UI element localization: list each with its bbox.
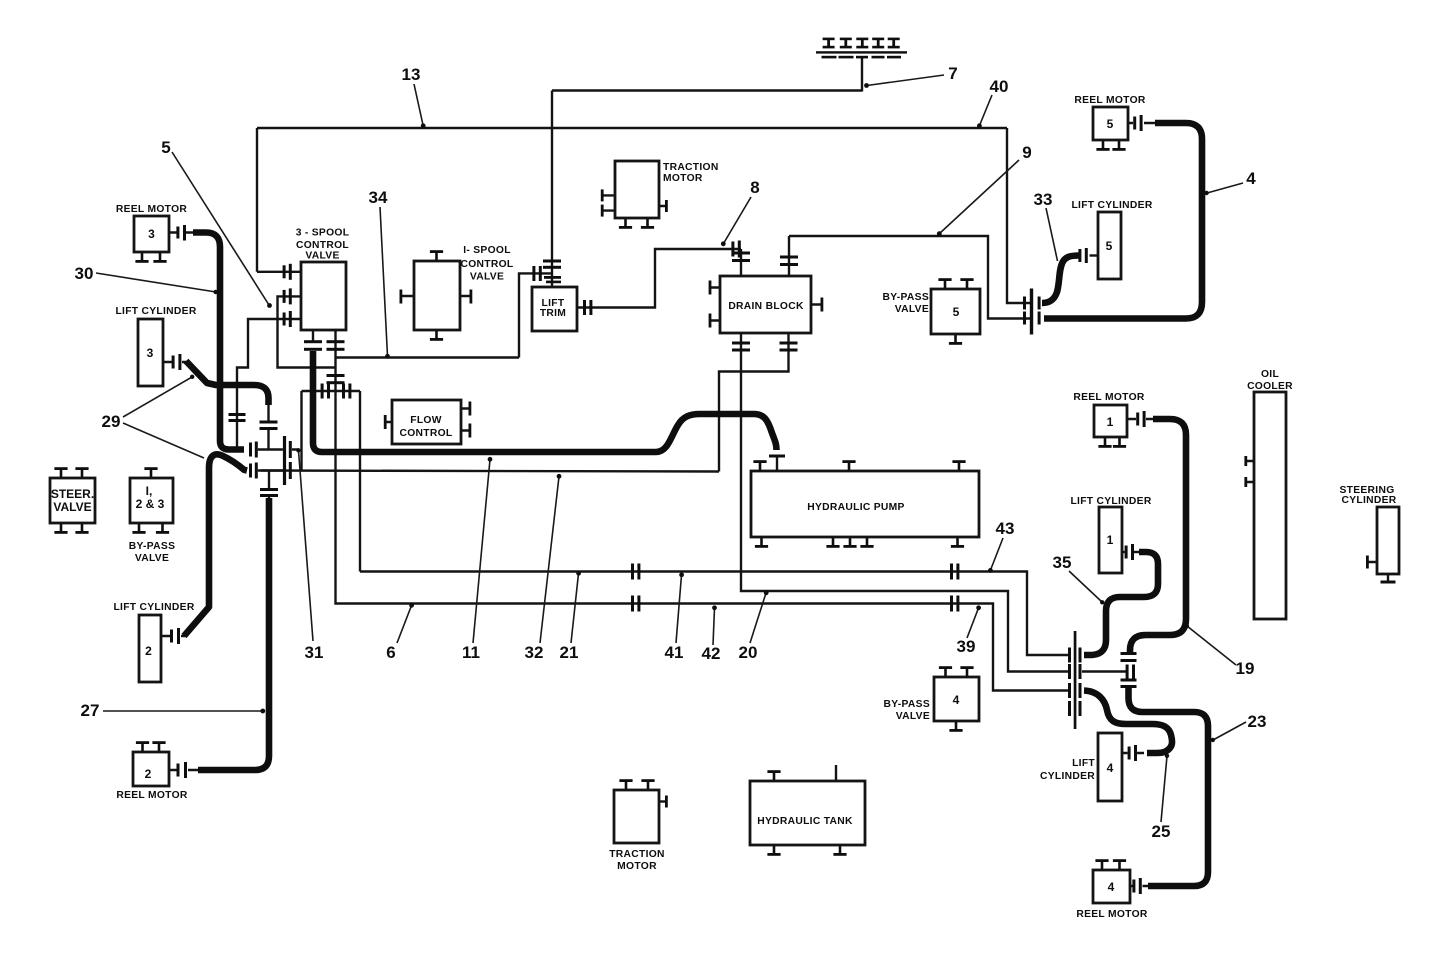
svg-text:STEER.: STEER. bbox=[51, 487, 94, 501]
svg-text:11: 11 bbox=[462, 643, 480, 662]
svg-text:REEL MOTOR: REEL MOTOR bbox=[116, 204, 188, 215]
svg-text:REEL MOTOR: REEL MOTOR bbox=[1076, 909, 1148, 920]
svg-text:4: 4 bbox=[1246, 169, 1256, 188]
svg-text:LIFT CYLINDER: LIFT CYLINDER bbox=[1071, 200, 1152, 211]
svg-text:8: 8 bbox=[750, 178, 759, 197]
svg-text:39: 39 bbox=[957, 637, 976, 656]
svg-text:BY-PASS: BY-PASS bbox=[129, 541, 176, 552]
svg-text:5: 5 bbox=[953, 305, 960, 319]
svg-text:REEL MOTOR: REEL MOTOR bbox=[1074, 95, 1146, 106]
svg-text:TRIM: TRIM bbox=[540, 308, 566, 319]
svg-text:3: 3 bbox=[148, 227, 155, 241]
svg-text:1: 1 bbox=[1107, 533, 1114, 547]
svg-text:VALVE: VALVE bbox=[305, 251, 339, 262]
svg-text:2: 2 bbox=[145, 644, 152, 658]
svg-text:35: 35 bbox=[1053, 553, 1072, 572]
svg-text:LIFT CYLINDER: LIFT CYLINDER bbox=[115, 306, 196, 317]
svg-text:CYLINDER: CYLINDER bbox=[1341, 495, 1396, 506]
svg-text:27: 27 bbox=[81, 701, 100, 720]
svg-text:32: 32 bbox=[525, 643, 544, 662]
svg-text:19: 19 bbox=[1236, 659, 1255, 678]
svg-text:42: 42 bbox=[702, 644, 721, 663]
svg-text:2 & 3: 2 & 3 bbox=[136, 497, 165, 511]
svg-text:43: 43 bbox=[996, 519, 1015, 538]
svg-text:6: 6 bbox=[386, 643, 395, 662]
svg-text:5: 5 bbox=[161, 138, 170, 157]
svg-text:7: 7 bbox=[948, 64, 957, 83]
svg-text:5: 5 bbox=[1107, 117, 1114, 131]
svg-text:40: 40 bbox=[990, 77, 1009, 96]
svg-text:3 - SPOOL: 3 - SPOOL bbox=[296, 228, 350, 239]
svg-text:HYDRAULIC TANK: HYDRAULIC TANK bbox=[757, 816, 853, 827]
svg-text:TRACTION: TRACTION bbox=[663, 162, 719, 173]
svg-text:BY-PASS: BY-PASS bbox=[883, 699, 930, 710]
svg-text:CONTROL: CONTROL bbox=[460, 259, 513, 270]
svg-text:1: 1 bbox=[1107, 415, 1114, 429]
svg-text:21: 21 bbox=[560, 643, 579, 662]
svg-text:MOTOR: MOTOR bbox=[663, 173, 703, 184]
svg-text:30: 30 bbox=[75, 264, 94, 283]
svg-text:34: 34 bbox=[369, 188, 388, 207]
svg-text:FLOW: FLOW bbox=[410, 415, 442, 426]
svg-text:4: 4 bbox=[1108, 880, 1115, 894]
svg-text:CONTROL: CONTROL bbox=[399, 428, 452, 439]
svg-text:I- SPOOL: I- SPOOL bbox=[463, 245, 511, 256]
svg-text:OIL: OIL bbox=[1261, 369, 1279, 380]
svg-text:CYLINDER: CYLINDER bbox=[1040, 771, 1095, 782]
svg-text:VALVE: VALVE bbox=[896, 711, 930, 722]
svg-text:REEL MOTOR: REEL MOTOR bbox=[116, 790, 188, 801]
svg-text:DRAIN BLOCK: DRAIN BLOCK bbox=[728, 301, 804, 312]
svg-text:HYDRAULIC PUMP: HYDRAULIC PUMP bbox=[807, 502, 904, 513]
svg-text:23: 23 bbox=[1248, 712, 1267, 731]
svg-text:4: 4 bbox=[953, 693, 960, 707]
svg-text:COOLER: COOLER bbox=[1247, 381, 1293, 392]
svg-text:VALVE: VALVE bbox=[470, 272, 504, 283]
svg-text:5: 5 bbox=[1106, 239, 1113, 253]
svg-text:VALVE: VALVE bbox=[135, 553, 169, 564]
svg-text:VALVE: VALVE bbox=[53, 500, 91, 514]
svg-text:LIFT CYLINDER: LIFT CYLINDER bbox=[1070, 496, 1151, 507]
svg-text:MOTOR: MOTOR bbox=[617, 861, 657, 872]
svg-text:31: 31 bbox=[305, 643, 324, 662]
svg-text:29: 29 bbox=[102, 412, 121, 431]
svg-text:BY-PASS: BY-PASS bbox=[882, 292, 929, 303]
svg-text:TRACTION: TRACTION bbox=[609, 849, 665, 860]
svg-text:3: 3 bbox=[147, 346, 154, 360]
svg-text:LIFT: LIFT bbox=[1072, 758, 1095, 769]
svg-text:LIFT CYLINDER: LIFT CYLINDER bbox=[113, 602, 194, 613]
svg-text:13: 13 bbox=[402, 65, 421, 84]
svg-text:CONTROL: CONTROL bbox=[296, 240, 349, 251]
svg-text:41: 41 bbox=[665, 643, 684, 662]
svg-text:REEL MOTOR: REEL MOTOR bbox=[1073, 392, 1145, 403]
svg-text:25: 25 bbox=[1152, 822, 1171, 841]
svg-text:33: 33 bbox=[1034, 190, 1053, 209]
svg-text:2: 2 bbox=[145, 767, 152, 781]
svg-text:VALVE: VALVE bbox=[895, 304, 929, 315]
svg-text:4: 4 bbox=[1107, 761, 1114, 775]
svg-text:I,: I, bbox=[146, 484, 153, 498]
svg-text:20: 20 bbox=[739, 643, 758, 662]
svg-text:9: 9 bbox=[1022, 143, 1031, 162]
